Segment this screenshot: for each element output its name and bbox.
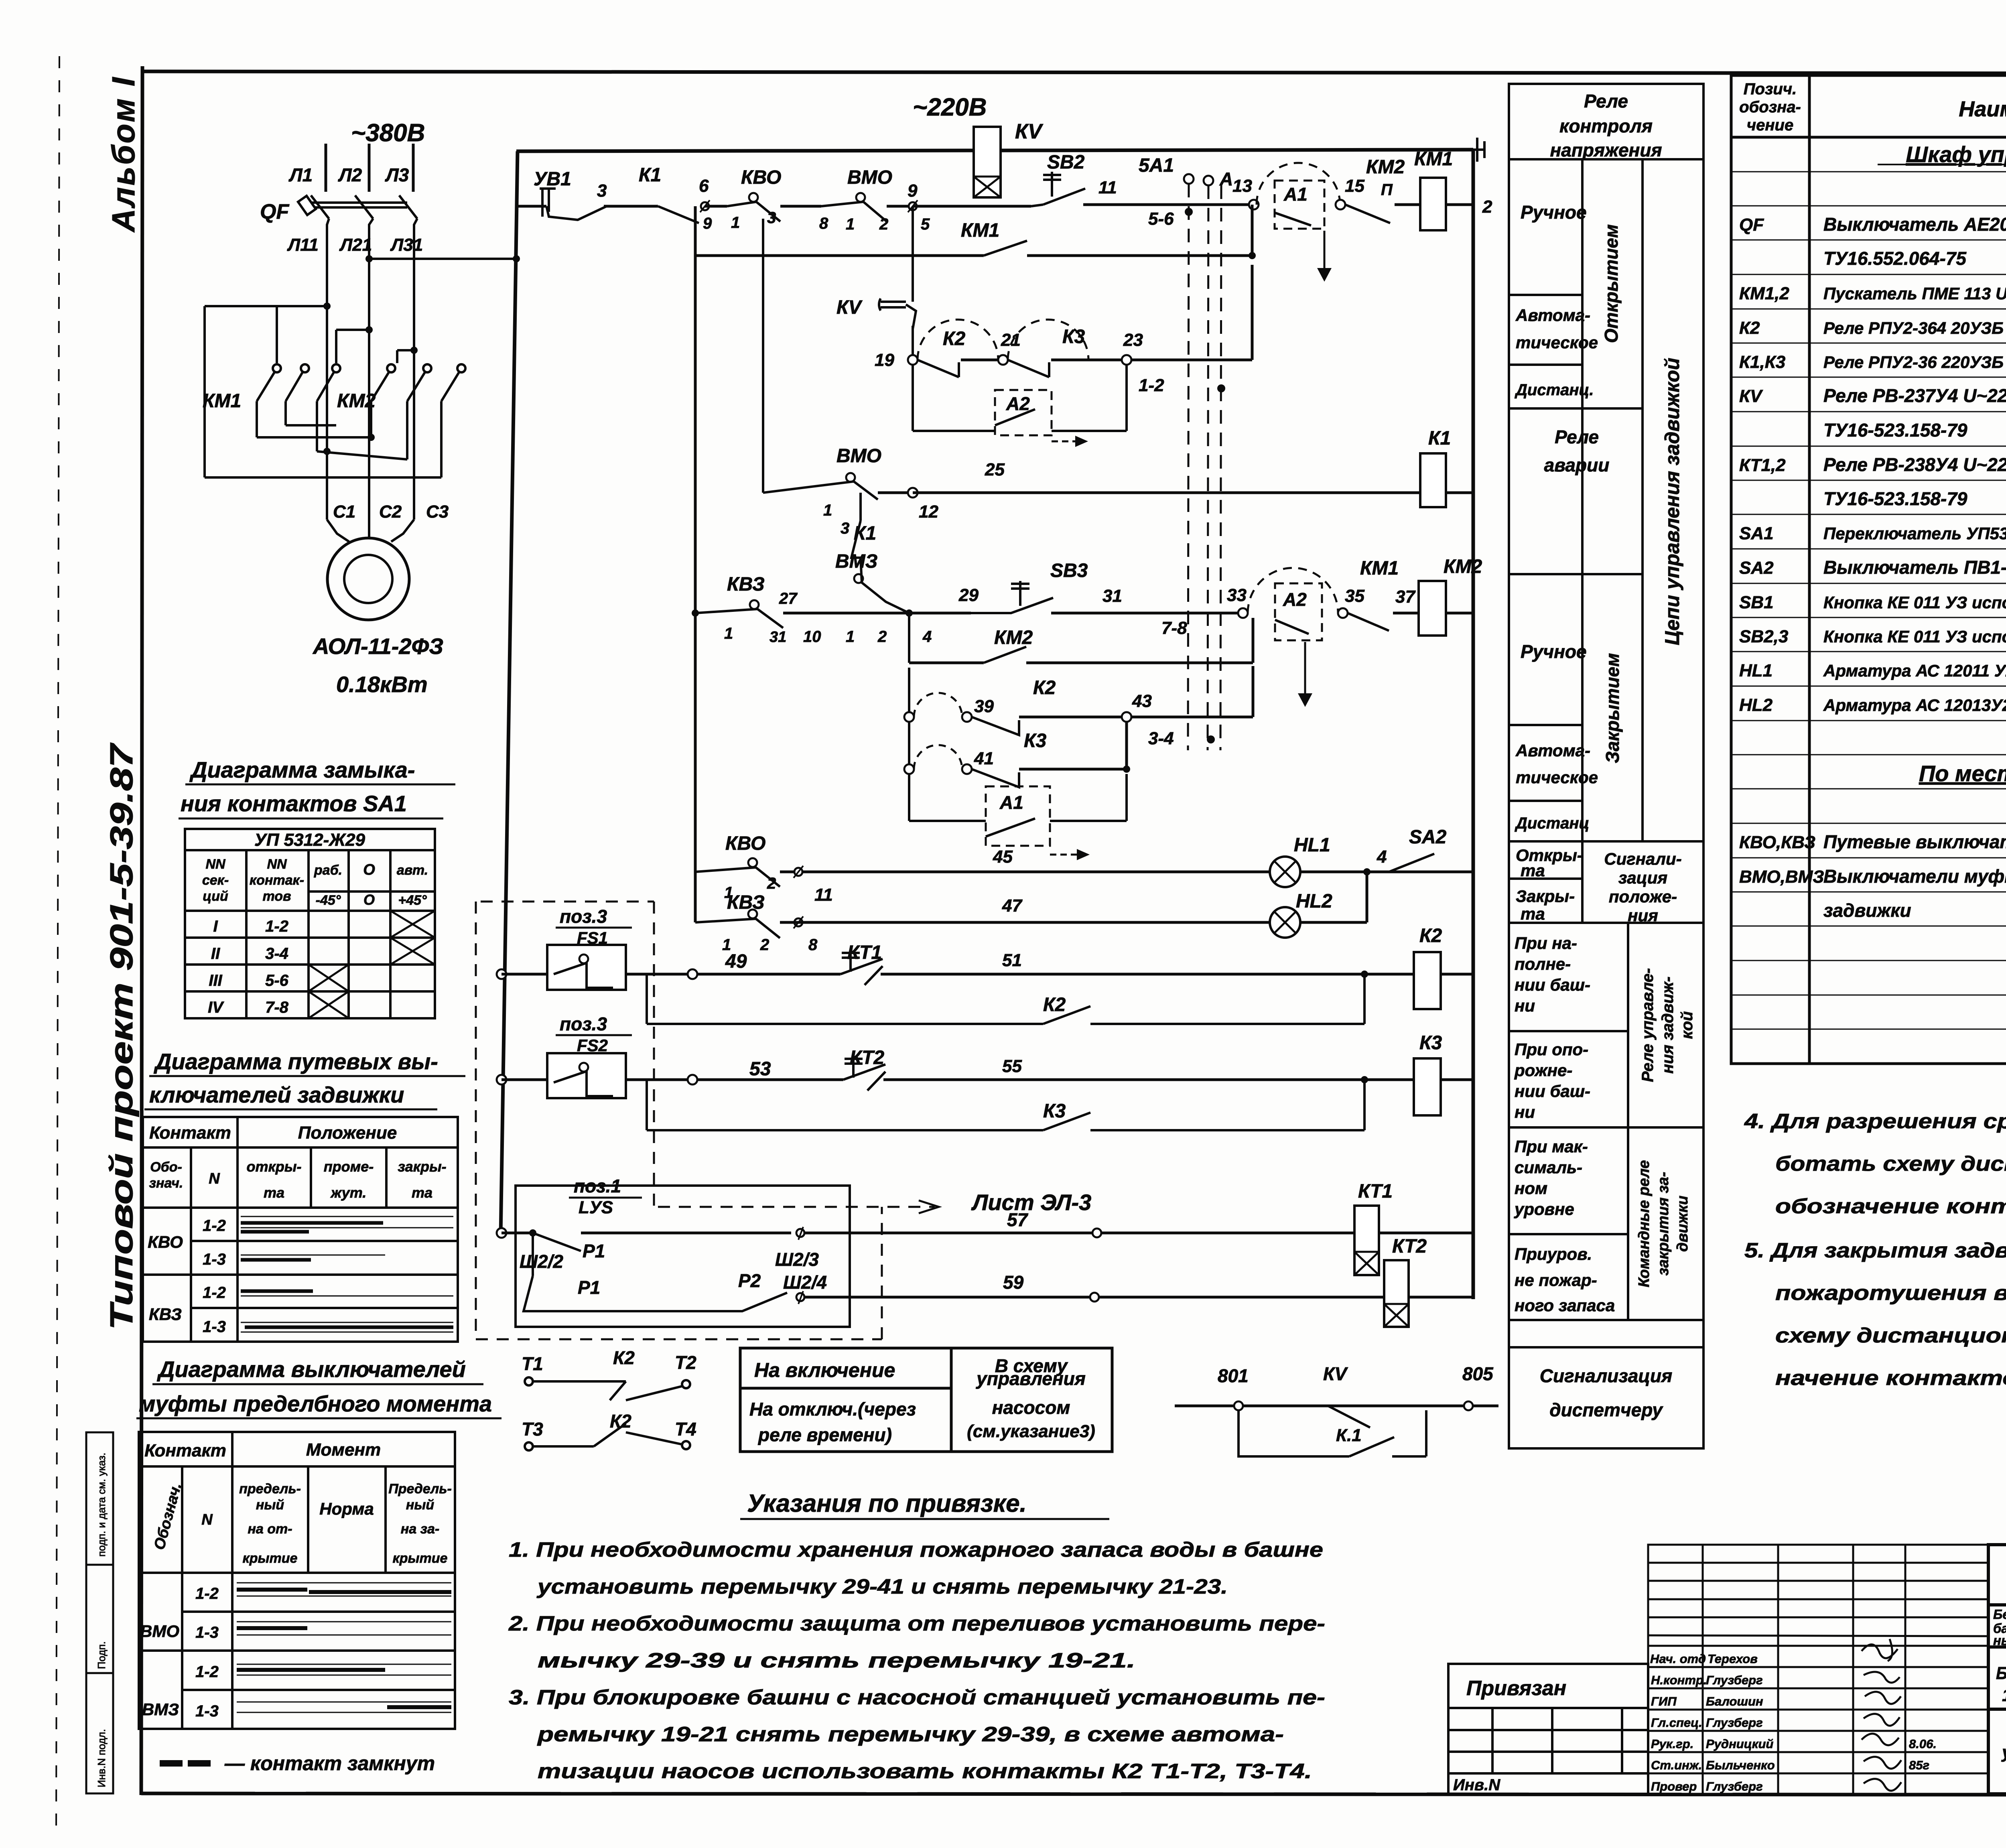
svg-text:ВМЗ: ВМЗ bbox=[142, 1700, 179, 1719]
svg-text:15: 15 bbox=[1345, 176, 1364, 196]
svg-text:33: 33 bbox=[1227, 585, 1247, 605]
svg-text:8: 8 bbox=[819, 215, 828, 232]
svg-text:LУS: LУS bbox=[579, 1198, 613, 1217]
svg-text:Реле управле-: Реле управле- bbox=[1639, 968, 1657, 1082]
svg-text:ния задвиж-: ния задвиж- bbox=[1659, 977, 1677, 1074]
svg-text:ботать схему дистанционного: ботать схему дистанционного управления (… bbox=[1775, 1152, 2006, 1176]
svg-text:3-4: 3-4 bbox=[1148, 729, 1174, 748]
svg-text:рожне-: рожне- bbox=[1514, 1061, 1572, 1080]
svg-text:Выключатели муфты предельного: Выключатели муфты предельного момента bbox=[1823, 866, 2006, 887]
svg-text:Инв.N: Инв.N bbox=[1453, 1776, 1500, 1794]
svg-text:Сигнализация: Сигнализация bbox=[1540, 1365, 1672, 1386]
svg-text:КМ1: КМ1 bbox=[1360, 558, 1399, 579]
svg-text:Ручное: Ручное bbox=[1521, 202, 1587, 223]
svg-text:поз.3: поз.3 bbox=[560, 906, 607, 927]
svg-text:~220В: ~220В bbox=[913, 93, 987, 121]
svg-text:на от-: на от- bbox=[248, 1521, 292, 1537]
svg-text:Цепи управления задвижкой: Цепи управления задвижкой bbox=[1661, 358, 1683, 646]
aux contact K3 holding bbox=[646, 1080, 648, 1130]
svg-text:Т2: Т2 bbox=[675, 1352, 696, 1373]
svg-text:ный: ный bbox=[406, 1497, 434, 1513]
svg-text:зация: зация bbox=[1618, 868, 1667, 887]
heading: диаграмма путевых выключателей задвижки bbox=[149, 1049, 438, 1107]
svg-text:1: 1 bbox=[846, 215, 855, 233]
svg-text:ни: ни bbox=[1515, 996, 1535, 1015]
svg-text:4: 4 bbox=[922, 628, 932, 646]
svg-text:ния: ния bbox=[1628, 906, 1658, 925]
svg-text:3: 3 bbox=[597, 181, 607, 201]
svg-text:Арматура АС 12013У2 U 220В ТУ: Арматура АС 12013У2 U 220В ТУ16-535.930-… bbox=[1823, 696, 2006, 715]
svg-text:100м³ высотой 18м: 100м³ высотой 18м bbox=[2002, 1686, 2006, 1705]
svg-text:КV: КV bbox=[837, 297, 863, 318]
svg-text:Рук.гр.: Рук.гр. bbox=[1651, 1737, 1693, 1751]
svg-text:КВО: КВО bbox=[725, 833, 765, 854]
title block main bbox=[1988, 1545, 2006, 1794]
svg-text:подп. и дата см. указ.: подп. и дата см. указ. bbox=[95, 1453, 108, 1557]
svg-text:805: 805 bbox=[1462, 1363, 1494, 1384]
svg-text:SА1: SА1 bbox=[1739, 524, 1774, 543]
svg-text:На включение: На включение bbox=[754, 1359, 895, 1381]
svg-text:чение: чение bbox=[1747, 116, 1793, 134]
svg-text:тическое: тическое bbox=[1516, 768, 1598, 787]
svg-text:КВО,КВЗ: КВО,КВЗ bbox=[1739, 833, 1815, 852]
svg-text:ВМО: ВМО bbox=[837, 445, 881, 467]
svg-text:ремычку 19-21 снять перемыч: ремычку 19-21 снять перемычку 29-39, в с… bbox=[536, 1723, 1284, 1746]
svg-text:сек-: сек- bbox=[202, 873, 229, 888]
svg-text:Ручное: Ручное bbox=[1521, 641, 1587, 662]
svg-text:та: та bbox=[1521, 904, 1545, 923]
svg-text:Гл.спец.: Гл.спец. bbox=[1651, 1716, 1702, 1730]
svg-text:1-2: 1-2 bbox=[195, 1585, 219, 1602]
svg-text:КМ1: КМ1 bbox=[203, 390, 241, 412]
svg-text:Рудницкий: Рудницкий bbox=[1706, 1737, 1773, 1751]
svg-text:К2: К2 bbox=[613, 1347, 635, 1368]
privyazan table bbox=[1448, 1664, 1648, 1794]
svg-text:Л11: Л11 bbox=[287, 235, 319, 255]
closed-state bars bbox=[241, 1223, 453, 1327]
svg-text:А2: А2 bbox=[1283, 589, 1307, 610]
svg-text:обозна-: обозна- bbox=[1739, 98, 1801, 116]
svg-text:Реле РПУ2-36 220УЗБ U~220В ТУ: Реле РПУ2-36 220УЗБ U~220В ТУ16.523.331-… bbox=[1823, 353, 2006, 372]
svg-text:авт.: авт. bbox=[397, 863, 428, 878]
svg-text:5-6: 5-6 bbox=[265, 972, 289, 989]
rung 27 wire bbox=[692, 609, 699, 617]
svg-text:1-2: 1-2 bbox=[203, 1217, 226, 1235]
svg-text:9: 9 bbox=[703, 215, 712, 232]
svg-text:на за-: на за- bbox=[401, 1521, 439, 1537]
svg-text:SВ3: SВ3 bbox=[1050, 560, 1088, 581]
svg-text:801: 801 bbox=[1218, 1365, 1249, 1386]
svg-text:Терехов: Терехов bbox=[1708, 1652, 1758, 1666]
svg-text:КV: КV bbox=[1323, 1363, 1348, 1384]
svg-text:ния контактов SА1: ния контактов SА1 bbox=[181, 791, 407, 816]
motor M bbox=[327, 538, 409, 620]
svg-text:Обо-: Обо- bbox=[150, 1160, 182, 1175]
svg-text:11: 11 bbox=[814, 885, 833, 905]
svg-text:47: 47 bbox=[1002, 896, 1023, 916]
svg-text:крытие: крытие bbox=[393, 1551, 448, 1566]
svg-text:Наименование: Наименование bbox=[1959, 97, 2006, 121]
limit switch diagram table bbox=[143, 1117, 458, 1342]
torque switch diagram table bbox=[139, 1432, 455, 1729]
svg-text:1-2: 1-2 bbox=[195, 1663, 219, 1681]
rung 57 wire bbox=[497, 1228, 506, 1238]
svg-text:10: 10 bbox=[803, 628, 821, 646]
svg-text:FS2: FS2 bbox=[577, 1036, 608, 1055]
svg-text:Реле РВ-238У4 U~220В Вв 0.5: Реле РВ-238У4 U~220В Вв 0.5-9с bbox=[1823, 454, 2006, 475]
svg-text:КМ1: КМ1 bbox=[1414, 148, 1453, 170]
svg-text:Кнопка КЕ 011 УЗ исполн.5 ТУ1: Кнопка КЕ 011 УЗ исполн.5 ТУ16.526.407-7… bbox=[1823, 593, 2006, 612]
left attachment strip cells bbox=[86, 1432, 113, 1793]
svg-text:К3: К3 bbox=[1024, 730, 1047, 751]
svg-text:II: II bbox=[211, 945, 220, 963]
switching mode mini table bbox=[740, 1348, 1112, 1452]
svg-text:Реле РВ-237У4 U~220В Вв 0.5-: Реле РВ-237У4 U~220В Вв 0.5-9с bbox=[1823, 385, 2006, 406]
svg-text:HL1: HL1 bbox=[1294, 835, 1330, 856]
tap wire to control bus bbox=[369, 258, 516, 260]
svg-text:12: 12 bbox=[919, 502, 938, 522]
svg-text:9: 9 bbox=[908, 181, 918, 201]
svg-text:Лист ЭЛ-3: Лист ЭЛ-3 bbox=[971, 1190, 1091, 1215]
svg-text:К3: К3 bbox=[1062, 326, 1085, 347]
svg-text:SА2: SА2 bbox=[1409, 827, 1447, 848]
svg-text:та: та bbox=[1521, 861, 1545, 880]
svg-text:Предель-: Предель- bbox=[388, 1481, 452, 1497]
svg-text:ный: ный bbox=[256, 1497, 284, 1513]
svg-text:ТУ16-523.158-79: ТУ16-523.158-79 bbox=[1823, 488, 1967, 509]
svg-text:85г: 85г bbox=[1909, 1758, 1929, 1772]
svg-text:движки: движки bbox=[1674, 1196, 1691, 1252]
svg-text:Глузберг: Глузберг bbox=[1706, 1716, 1763, 1730]
chassis mark at top of right bus bbox=[1465, 138, 1484, 162]
svg-text:К2: К2 bbox=[610, 1411, 631, 1432]
svg-text:3: 3 bbox=[841, 520, 849, 537]
svg-text:Пускатель ПМЕ 113 U~220В ОСТ16: Пускатель ПМЕ 113 U~220В ОСТ16.0.536.001… bbox=[1823, 284, 2006, 303]
svg-text:Р1: Р1 bbox=[583, 1241, 605, 1261]
svg-text:контроля: контроля bbox=[1559, 116, 1653, 136]
function column table bbox=[1509, 84, 1703, 1448]
svg-text:59: 59 bbox=[1003, 1272, 1024, 1293]
svg-text:1. При необходимости хранени: 1. При необходимости хранения пожарного … bbox=[509, 1538, 1323, 1562]
svg-text:сималь-: сималь- bbox=[1515, 1158, 1582, 1177]
block A1 dashed with arc bbox=[1257, 163, 1340, 205]
svg-text:Реле: Реле bbox=[1584, 91, 1628, 112]
svg-text:крытие: крытие bbox=[243, 1551, 298, 1566]
svg-text:Н.контр.: Н.контр. bbox=[1651, 1673, 1707, 1687]
svg-text:Ш2/4: Ш2/4 bbox=[783, 1272, 827, 1293]
svg-text:контак-: контак- bbox=[250, 873, 304, 888]
block A2 branch bbox=[912, 365, 914, 431]
phase wire Л31 bbox=[414, 219, 417, 520]
block A2 dashed on rung27 bbox=[1248, 568, 1338, 613]
svg-text:+45°: +45° bbox=[398, 893, 427, 908]
svg-text:3-4: 3-4 bbox=[265, 945, 288, 963]
svg-text:мычку 29-39 и снять перемычк: мычку 29-39 и снять перемычку 19-21. bbox=[538, 1649, 1135, 1672]
heading: диаграмма замыкания контактов SA1 bbox=[181, 757, 415, 816]
svg-text:закрытия за-: закрытия за- bbox=[1655, 1172, 1672, 1276]
svg-text:пожаротушения высокого давле: пожаротушения высокого давления разработ… bbox=[1775, 1281, 2006, 1305]
svg-text:ВМО,ВМЗ: ВМО,ВМЗ bbox=[1739, 867, 1824, 887]
aux contact KM2 rung bbox=[908, 613, 910, 663]
svg-text:КВО: КВО bbox=[148, 1233, 183, 1251]
svg-text:-45°: -45° bbox=[316, 893, 341, 908]
svg-text:КТ1: КТ1 bbox=[1358, 1181, 1393, 1202]
svg-text:На отключ.(через: На отключ.(через bbox=[749, 1399, 916, 1420]
svg-text:5: 5 bbox=[921, 215, 930, 233]
svg-text:Шкаф управления ШУ: Шкаф управления ШУ bbox=[1906, 142, 2006, 167]
svg-text:1-2: 1-2 bbox=[265, 918, 288, 935]
svg-text:19: 19 bbox=[875, 350, 894, 370]
svg-text:III: III bbox=[209, 972, 222, 989]
svg-text:нии баш-: нии баш- bbox=[1515, 975, 1590, 994]
svg-text:По месту: По месту bbox=[1919, 761, 2006, 786]
svg-text:О: О bbox=[363, 892, 375, 908]
svg-text:25: 25 bbox=[985, 460, 1005, 479]
svg-text:53: 53 bbox=[749, 1058, 771, 1080]
svg-text:SВ1: SВ1 bbox=[1739, 593, 1774, 612]
svg-text:Р2: Р2 bbox=[738, 1270, 761, 1291]
svg-text:НL2: НL2 bbox=[1739, 695, 1773, 715]
svg-text:Т1: Т1 bbox=[522, 1353, 543, 1374]
svg-text:аварии: аварии bbox=[1544, 455, 1610, 475]
svg-text:К2: К2 bbox=[943, 328, 966, 349]
svg-text:2. При необходимости защита: 2. При необходимости защита от переливов… bbox=[508, 1612, 1325, 1635]
svg-text:5-6: 5-6 bbox=[1148, 209, 1174, 229]
svg-text:35: 35 bbox=[1345, 586, 1364, 606]
svg-text:та: та bbox=[412, 1184, 432, 1201]
svg-text:начение контактов - А1). Сня: начение контактов - А1). Снять перемычку… bbox=[1775, 1367, 2006, 1390]
svg-text:1-3: 1-3 bbox=[195, 1702, 219, 1720]
svg-text:1: 1 bbox=[731, 214, 740, 232]
svg-text:N: N bbox=[201, 1511, 213, 1528]
svg-text:2: 2 bbox=[760, 936, 769, 954]
svg-text:ключателей задвижки: ключателей задвижки bbox=[149, 1082, 404, 1107]
rung 53 wire bbox=[497, 1075, 506, 1084]
svg-text:К3: К3 bbox=[1043, 1101, 1066, 1122]
SA1 diagram table bbox=[185, 829, 435, 1018]
svg-text:положе-: положе- bbox=[1609, 887, 1677, 906]
top bus wire bbox=[516, 150, 974, 151]
phase stub L3 bbox=[412, 144, 415, 192]
svg-text:проме-: проме- bbox=[324, 1158, 374, 1175]
svg-text:HL2: HL2 bbox=[1296, 891, 1332, 912]
note 4 bbox=[1744, 1110, 2006, 1390]
phase wire Л11 bbox=[327, 219, 329, 520]
svg-text:Положение: Положение bbox=[298, 1123, 397, 1143]
aux contact K2 holding bbox=[646, 974, 648, 1024]
svg-text:QF: QF bbox=[1739, 215, 1764, 235]
svg-text:Т4: Т4 bbox=[675, 1419, 696, 1440]
svg-text:КВЗ: КВЗ bbox=[727, 892, 765, 913]
svg-text:полне-: полне- bbox=[1515, 954, 1571, 973]
svg-text:ГИП: ГИП bbox=[1651, 1694, 1677, 1708]
signature table bbox=[1648, 1545, 1988, 1794]
svg-text:Реле: Реле bbox=[1555, 426, 1599, 447]
svg-text:уровне: уровне bbox=[1514, 1200, 1574, 1218]
svg-text:Башня с баком емкостью: Башня с баком емкостью bbox=[1996, 1663, 2006, 1683]
svg-text:Бесшатровые водонапорные башн: Бесшатровые водонапорные башни со стальн… bbox=[1993, 1607, 2006, 1622]
svg-text:1: 1 bbox=[823, 502, 832, 519]
svg-text:А2: А2 bbox=[1006, 393, 1030, 414]
dashed enclosure for remote devices bbox=[476, 902, 882, 1339]
svg-text:поз.3: поз.3 bbox=[560, 1013, 607, 1034]
svg-text:Момент: Момент bbox=[306, 1440, 381, 1460]
svg-text:3. При блокировке башни с: 3. При блокировке башни с насосной станц… bbox=[509, 1686, 1325, 1709]
svg-text:установить перемычку 29-41 и с: установить перемычку 29-41 и снять перем… bbox=[536, 1575, 1228, 1598]
svg-text:1-3: 1-3 bbox=[203, 1318, 226, 1336]
svg-text:Л31: Л31 bbox=[390, 235, 423, 255]
svg-text:К2: К2 bbox=[1419, 925, 1442, 946]
svg-text:Автома-: Автома- bbox=[1515, 741, 1590, 760]
svg-text:49: 49 bbox=[725, 951, 747, 972]
signature squiggles bbox=[1862, 1639, 1901, 1791]
svg-text:31: 31 bbox=[1102, 586, 1122, 606]
block A1 branch lower bbox=[908, 774, 910, 821]
svg-text:А1: А1 bbox=[999, 792, 1023, 813]
svg-text:Глузберг: Глузберг bbox=[1706, 1673, 1763, 1687]
svg-text:23: 23 bbox=[1123, 330, 1143, 350]
svg-text:ВМО: ВМО bbox=[140, 1622, 179, 1641]
svg-text:1-3: 1-3 bbox=[195, 1624, 219, 1641]
svg-text:Л2: Л2 bbox=[338, 164, 362, 185]
svg-text:6: 6 bbox=[699, 176, 709, 196]
svg-text:КV: КV bbox=[1015, 120, 1044, 143]
svg-text:КВЗ: КВЗ bbox=[727, 574, 765, 595]
svg-text:2: 2 bbox=[877, 628, 887, 646]
svg-text:раб.: раб. bbox=[314, 863, 342, 878]
aux contact KM1 rung bbox=[694, 206, 697, 922]
svg-text:41: 41 bbox=[974, 749, 994, 768]
svg-text:SА2: SА2 bbox=[1739, 558, 1774, 578]
svg-text:57: 57 bbox=[1007, 1209, 1029, 1230]
svg-text:Ш2/2: Ш2/2 bbox=[520, 1251, 563, 1272]
svg-text:Т3: Т3 bbox=[522, 1419, 543, 1440]
rung 49 wire bbox=[497, 969, 506, 979]
svg-text:31: 31 bbox=[770, 629, 786, 646]
svg-text:знач.: знач. bbox=[149, 1176, 183, 1191]
svg-text:Провер: Провер bbox=[1651, 1779, 1697, 1793]
svg-text:SВ2: SВ2 bbox=[1047, 152, 1085, 173]
interlock rung K2 K3 bbox=[908, 355, 918, 365]
svg-text:управления задвижкой: управления задвижкой bbox=[2001, 1742, 2006, 1762]
K2 changeover contacts T1-T2 bbox=[525, 1377, 690, 1400]
svg-text:2: 2 bbox=[1482, 197, 1492, 217]
svg-text:Кнопка КЕ 011 УЗ исполн.4 ТУ1: Кнопка КЕ 011 УЗ исполн.4 ТУ16.526.407-7… bbox=[1823, 627, 2006, 646]
svg-text:8: 8 bbox=[808, 936, 818, 954]
svg-text:27: 27 bbox=[779, 590, 798, 607]
svg-text:Подп.: Подп. bbox=[95, 1641, 108, 1669]
breaker QF bbox=[298, 195, 417, 219]
rung 25 wire bbox=[762, 219, 764, 493]
svg-text:1-2: 1-2 bbox=[203, 1284, 226, 1302]
svg-text:IV: IV bbox=[208, 999, 224, 1016]
svg-text:13: 13 bbox=[1232, 176, 1252, 196]
svg-text:С1: С1 bbox=[333, 502, 355, 522]
legend: contact closed bbox=[160, 1760, 183, 1767]
svg-text:УП 5312-Ж29: УП 5312-Ж29 bbox=[254, 830, 365, 850]
phase stub L1 bbox=[325, 144, 327, 192]
phase wire Л21 bbox=[369, 219, 373, 520]
svg-text:КМ1,2: КМ1,2 bbox=[1739, 284, 1789, 303]
svg-text:Открытием: Открытием bbox=[1601, 224, 1622, 343]
svg-text:Ш2/3: Ш2/3 bbox=[775, 1249, 819, 1270]
svg-text:Диаграмма путевых вы-: Диаграмма путевых вы- bbox=[154, 1049, 438, 1074]
svg-text:11: 11 bbox=[1098, 178, 1117, 197]
svg-text:При на-: При на- bbox=[1515, 934, 1577, 952]
svg-text:Контакт: Контакт bbox=[149, 1123, 231, 1143]
svg-text:Закрытием: Закрытием bbox=[1602, 653, 1623, 763]
KM1 feeder taps bbox=[277, 306, 414, 363]
svg-text:Л1: Л1 bbox=[288, 164, 313, 185]
svg-text:муфты пределбного момента: муфты пределбного момента bbox=[139, 1391, 492, 1416]
svg-text:КВЗ: КВЗ bbox=[149, 1305, 182, 1324]
svg-text:Норма: Норма bbox=[319, 1499, 374, 1518]
svg-text:1: 1 bbox=[846, 628, 855, 646]
svg-text:нии баш-: нии баш- bbox=[1515, 1082, 1590, 1101]
svg-text:тизации наосов использовать: тизации наосов использовать контакты К2 … bbox=[538, 1760, 1312, 1783]
X marks bbox=[309, 911, 435, 1018]
svg-text:5А1: 5А1 bbox=[1139, 155, 1174, 176]
svg-text:Л3: Л3 bbox=[385, 164, 409, 185]
svg-text:37: 37 bbox=[1395, 587, 1416, 607]
svg-text:Контакт: Контакт bbox=[144, 1441, 226, 1460]
svg-text:П: П bbox=[1381, 181, 1393, 199]
svg-text:ни: ни bbox=[1515, 1103, 1535, 1121]
svg-text:Командные реле: Командные реле bbox=[1636, 1160, 1653, 1288]
svg-text:НL1: НL1 bbox=[1739, 661, 1773, 680]
svg-text:Балошин: Балошин bbox=[1706, 1694, 1763, 1708]
svg-text:та: та bbox=[264, 1184, 284, 1201]
svg-text:При мак-: При мак- bbox=[1515, 1137, 1588, 1156]
svg-text:ТУ16-523.158-79: ТУ16-523.158-79 bbox=[1823, 420, 1967, 441]
svg-text:NN: NN bbox=[267, 857, 287, 872]
motor leads into motor bbox=[327, 520, 414, 542]
svg-text:тов: тов bbox=[262, 889, 291, 904]
svg-text:диспетчеру: диспетчеру bbox=[1549, 1399, 1663, 1420]
svg-text:задвижки: задвижки bbox=[1823, 900, 1911, 921]
svg-text:51: 51 bbox=[1002, 950, 1022, 970]
svg-text:(см.указание3): (см.указание3) bbox=[967, 1422, 1095, 1441]
svg-text:Диаграмма выключателей: Диаграмма выключателей bbox=[157, 1357, 466, 1382]
svg-text:Дистанц.: Дистанц. bbox=[1515, 381, 1594, 399]
svg-text:КВО: КВО bbox=[741, 167, 781, 188]
svg-text:откры-: откры- bbox=[247, 1158, 302, 1175]
right control bus bbox=[1472, 150, 1475, 1299]
svg-text:схему дистанционной блокиров: схему дистанционной блокировки (условное… bbox=[1775, 1324, 2006, 1347]
svg-text:Закры-: Закры- bbox=[1516, 887, 1575, 906]
svg-text:ВМЗ: ВМЗ bbox=[835, 551, 878, 572]
svg-text:Реле РПУ2-364 20УЗБ U~220В ТУ: Реле РПУ2-364 20УЗБ U~220В ТУ16.523.331-… bbox=[1823, 319, 2006, 337]
svg-text:К.1: К.1 bbox=[1336, 1426, 1362, 1445]
svg-text:45: 45 bbox=[993, 847, 1013, 867]
phase stub L2 bbox=[368, 144, 371, 192]
svg-text:К1: К1 bbox=[639, 164, 661, 186]
svg-text:NN: NN bbox=[205, 857, 226, 872]
svg-text:КМ1: КМ1 bbox=[961, 220, 999, 241]
svg-text:39: 39 bbox=[974, 697, 994, 716]
level switch FS1 bbox=[547, 945, 626, 990]
svg-text:I: I bbox=[213, 918, 218, 935]
svg-text:предель-: предель- bbox=[239, 1481, 301, 1497]
svg-text:К2: К2 bbox=[1043, 994, 1066, 1015]
svg-text:Дистанц: Дистанц bbox=[1515, 814, 1589, 832]
aux contact K3 rung 41 bbox=[908, 722, 910, 769]
svg-text:Альбом I: Альбом I bbox=[106, 76, 141, 233]
svg-text:тическое: тическое bbox=[1516, 333, 1598, 352]
relay KV coil with time box bbox=[974, 127, 1001, 197]
svg-text:Сигнали-: Сигнали- bbox=[1604, 849, 1681, 868]
svg-text:1-3: 1-3 bbox=[203, 1251, 226, 1268]
